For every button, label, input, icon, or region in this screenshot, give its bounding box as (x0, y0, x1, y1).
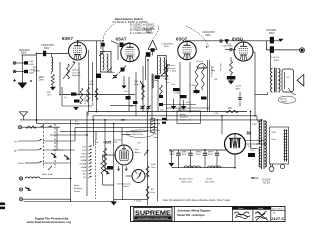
svg-text:Tubes: Tubes (153, 137, 158, 139)
svg-text:2nd Det: 2nd Det (196, 60, 203, 63)
svg-text:600V: 600V (206, 35, 212, 37)
svg-text:350 Ohm: 350 Ohm (221, 62, 223, 71)
svg-text:250MA: 250MA (79, 163, 86, 166)
svg-text:Ohm: Ohm (151, 167, 156, 169)
svg-text:450V: 450V (182, 154, 187, 156)
svg-text:Volt: Volt (95, 141, 99, 144)
svg-text:2 Meg: 2 Meg (170, 71, 177, 73)
svg-text:0.0001 MFD: 0.0001 MFD (202, 32, 215, 34)
svg-text:Padder: Padder (108, 71, 115, 74)
svg-text:Selector Sw: Selector Sw (132, 133, 143, 136)
svg-text:0.0001 MFD: 0.0001 MFD (142, 29, 155, 31)
svg-text:Megohm: Megohm (72, 75, 81, 77)
svg-text:Adjust: Adjust (135, 151, 141, 154)
svg-text:50V: 50V (82, 150, 86, 152)
svg-text:Ohm: Ohm (151, 192, 156, 194)
svg-text:1 Meg: 1 Meg (190, 85, 197, 87)
svg-text:Band Shift: Band Shift (42, 173, 52, 176)
svg-text:Ohm: Ohm (165, 82, 170, 84)
svg-text:10V: 10V (82, 147, 86, 149)
svg-text:2127-C: 2127-C (271, 216, 284, 221)
svg-text:Ohm: Ohm (153, 134, 158, 136)
svg-text:2.5V: 2.5V (82, 170, 87, 172)
svg-text:6SQ7: 6SQ7 (176, 36, 188, 41)
svg-text:450V: 450V (170, 154, 175, 156)
svg-text:4.25MA: 4.25MA (153, 129, 160, 132)
svg-text:Traced: Traced (258, 208, 264, 210)
svg-text:600V: 600V (146, 32, 152, 34)
svg-text:450V: 450V (196, 154, 201, 156)
svg-text:0.006: 0.006 (236, 86, 242, 88)
svg-text:Schematic Wiring Diagram: Schematic Wiring Diagram (178, 209, 212, 213)
svg-text:AC 60~: AC 60~ (263, 182, 271, 185)
svg-text:47K: 47K (228, 108, 233, 110)
svg-text:Amplifier: Amplifier (180, 116, 189, 119)
svg-text:DC: DC (83, 177, 87, 179)
svg-text:V.C.: V.C. (287, 77, 291, 79)
svg-text:0.005: 0.005 (174, 93, 180, 95)
svg-text:500 Microamp: 500 Microamp (117, 182, 132, 185)
svg-text:6.3V: 6.3V (250, 150, 255, 152)
svg-text:80: 80 (247, 131, 252, 136)
svg-text:Ohm: Ohm (47, 94, 52, 96)
svg-text:20K: 20K (134, 81, 138, 83)
svg-text:Meter: Meter (124, 185, 130, 188)
svg-text:R.F.: R.F. (33, 68, 37, 70)
svg-text:MFD: MFD (89, 84, 94, 86)
svg-text:400V: 400V (29, 73, 35, 75)
svg-text:450V: 450V (208, 154, 213, 156)
svg-text:www.SupremeInstruments.org: www.SupremeInstruments.org (26, 220, 71, 224)
svg-text:1000 Ohms: 1000 Ohms (181, 181, 193, 183)
svg-text:Grid Switch: Grid Switch (180, 118, 192, 121)
svg-text:Multiplier: Multiplier (74, 187, 83, 190)
svg-text:Volume: Volume (169, 65, 177, 67)
svg-text:Meter: Meter (74, 184, 80, 187)
svg-text:400V: 400V (29, 64, 35, 66)
svg-text:Choke: Choke (33, 71, 40, 73)
svg-text:0.0002 MFD: 0.0002 MFD (162, 44, 174, 46)
svg-text:Choke: Choke (206, 179, 213, 181)
svg-text:MFD: MFD (236, 88, 241, 90)
svg-text:Model 560 - Audolyzer: Model 560 - Audolyzer (178, 213, 205, 217)
svg-text:115V: 115V (272, 132, 277, 134)
svg-text:0.05 MFD: 0.05 MFD (266, 30, 276, 32)
svg-text:600V: 600V (274, 60, 280, 62)
svg-text:0.1 Meg: 0.1 Meg (85, 97, 87, 104)
svg-text:0.006 MFD: 0.006 MFD (222, 46, 233, 48)
svg-text:10MA: 10MA (81, 166, 87, 169)
svg-text:Audio: Audio (180, 113, 186, 116)
svg-text:No.: No. (273, 212, 277, 214)
svg-text:Ohm: Ohm (39, 80, 44, 82)
svg-text:Cont 2.5: Cont 2.5 (72, 71, 81, 74)
svg-text:Instrument: Instrument (131, 131, 141, 134)
svg-text:Meter: Meter (18, 162, 24, 165)
svg-text:250V: 250V (81, 153, 86, 155)
svg-text:Date 7-25-41: Date 7-25-41 (272, 207, 283, 210)
svg-text:Control: Control (169, 67, 176, 70)
svg-text:Speaker Field: Speaker Field (179, 178, 193, 181)
svg-text:5.2K: 5.2K (214, 113, 219, 115)
svg-text:6SK7: 6SK7 (62, 36, 74, 41)
svg-text:6.3V: 6.3V (113, 142, 118, 144)
svg-text:6SA7: 6SA7 (116, 37, 128, 42)
svg-text:50MA: 50MA (81, 159, 87, 162)
svg-text:2 Gang: 2 Gang (134, 201, 142, 203)
svg-text:Output: Output (281, 100, 288, 103)
svg-text:Osc.: Osc. (124, 91, 129, 93)
svg-text:0.0002 MFD: 0.0002 MFD (41, 45, 54, 47)
svg-text:To 110V: To 110V (262, 180, 271, 182)
svg-text:300 Ohms: 300 Ohms (205, 181, 216, 183)
svg-text:600V: 600V (44, 48, 50, 50)
svg-text:600V: 600V (21, 52, 27, 54)
svg-text:Drawn: Drawn (238, 208, 243, 210)
svg-text:AC: AC (83, 173, 86, 176)
svg-text:5.2K: 5.2K (248, 146, 253, 148)
svg-text:100K: 100K (39, 77, 45, 79)
svg-text:INSTRUMENTS CORPORATION: INSTRUMENTS CORPORATION (138, 217, 169, 220)
svg-text:Zero: Zero (135, 148, 140, 151)
svg-text:1W: 1W (214, 79, 217, 81)
svg-text:Switch: Switch (74, 190, 81, 193)
svg-text:600V: 600V (269, 33, 275, 35)
svg-text:5.2K: 5.2K (252, 124, 257, 126)
svg-text:0.05-1/8: 0.05-1/8 (271, 57, 280, 59)
svg-text:6.3: 6.3 (75, 121, 78, 123)
svg-text:600V: 600V (164, 46, 169, 48)
svg-text:Ohms: Ohms (134, 84, 141, 86)
svg-text:25AC: 25AC (103, 141, 109, 144)
svg-text:1000V: 1000V (80, 157, 87, 159)
svg-text:0.1 MFD: 0.1 MFD (178, 109, 186, 111)
